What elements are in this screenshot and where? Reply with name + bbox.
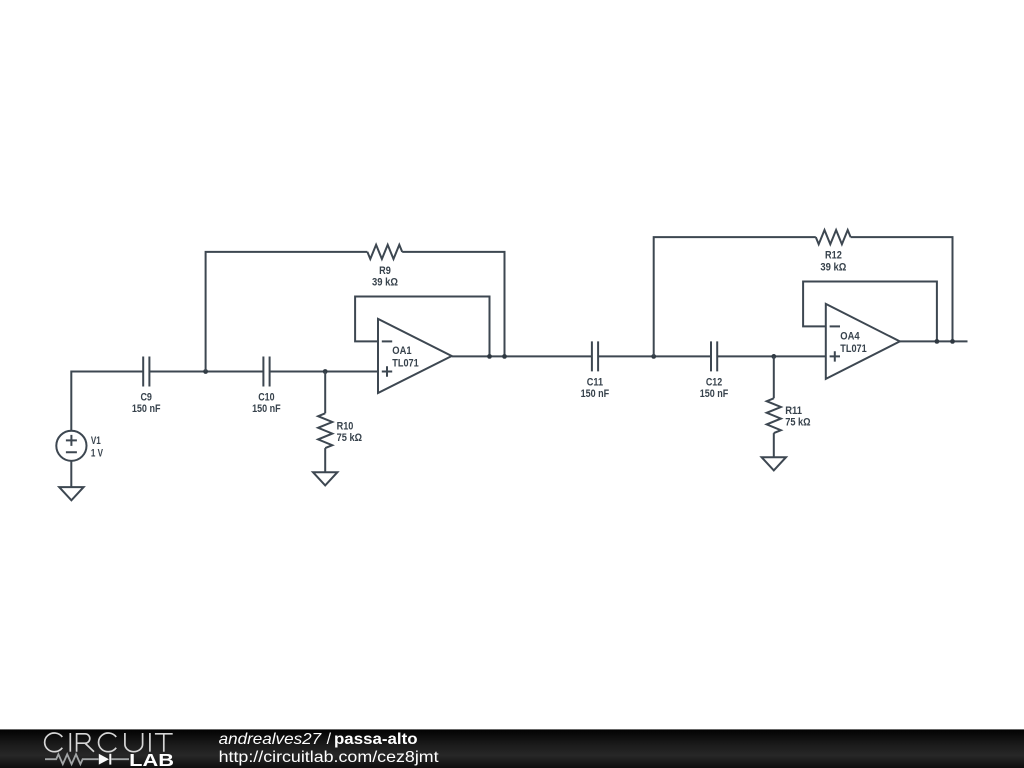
- svg-text:39 kΩ: 39 kΩ: [372, 276, 398, 288]
- voltage source V1: [56, 431, 103, 461]
- ground (below R11): [762, 457, 786, 470]
- capacitor C12: [700, 341, 729, 400]
- ground (below V1): [59, 487, 83, 500]
- svg-text:C10: C10: [258, 392, 274, 404]
- svg-text:andrealves27: andrealves27: [219, 731, 323, 748]
- wire R9 down to OA1 output: [402, 252, 504, 357]
- svg-text:OA4: OA4: [840, 330, 860, 342]
- capacitor C9: [132, 357, 161, 416]
- op-amp OA1: [378, 319, 452, 393]
- svg-text:http://circuitlab.com/cez8jmt: http://circuitlab.com/cez8jmt: [219, 749, 440, 766]
- svg-text:R11: R11: [785, 405, 802, 417]
- footer text: author / title: [219, 731, 418, 748]
- resistor R10: [318, 372, 362, 473]
- node OA1 output (R9 feedback): [502, 354, 507, 359]
- wire OA1 inner feedback loop: [355, 297, 489, 357]
- capacitor C10: [252, 357, 281, 416]
- wire C12 to OA4 noninverting input: [717, 355, 826, 357]
- capacitor C11: [581, 341, 610, 400]
- node OA1 output (inner feedback): [487, 354, 492, 359]
- svg-text:C11: C11: [587, 376, 603, 388]
- svg-text:150 nF: 150 nF: [581, 388, 610, 400]
- node D (R11 tap): [771, 354, 776, 359]
- svg-text:passa-alto: passa-alto: [334, 731, 418, 748]
- ground (below R10): [313, 472, 337, 485]
- op-amp OA4: [826, 304, 900, 379]
- resistor R9: [367, 245, 402, 289]
- wire C10 to OA1 noninverting input: [270, 371, 378, 373]
- CircuitLab logo wordmark CIRCUIT: [45, 733, 173, 752]
- resistor R11: [767, 356, 811, 457]
- wire C9 to C10: [149, 371, 263, 373]
- svg-text:75 kΩ: 75 kΩ: [337, 432, 363, 444]
- wire OA4 inner feedback loop: [803, 282, 937, 342]
- svg-text:TL071: TL071: [392, 358, 418, 370]
- wire OA4 output stub: [900, 340, 968, 342]
- wire C11 to C12: [598, 355, 711, 357]
- node OA4 output (R12 feedback): [950, 339, 955, 344]
- svg-text:OA1: OA1: [392, 345, 411, 357]
- node OA4 output (inner feedback): [935, 339, 940, 344]
- svg-text:C9: C9: [140, 392, 152, 404]
- svg-text:/: /: [327, 731, 332, 748]
- resistor R12: [816, 230, 851, 273]
- node A (C9/C10 junction): [203, 369, 208, 374]
- svg-text:1 V: 1 V: [91, 447, 104, 459]
- node B (R10 tap): [323, 369, 328, 374]
- svg-text:150 nF: 150 nF: [700, 388, 729, 400]
- svg-text:75 kΩ: 75 kΩ: [785, 417, 811, 429]
- wire OA1 output to C11: [452, 355, 592, 357]
- svg-text:150 nF: 150 nF: [252, 403, 281, 415]
- svg-text:V1: V1: [91, 435, 101, 447]
- svg-text:R10: R10: [337, 421, 354, 433]
- svg-text:R12: R12: [825, 250, 842, 262]
- svg-text:LAB: LAB: [129, 750, 174, 768]
- footer bar: [0, 729, 1024, 768]
- svg-text:39 kΩ: 39 kΩ: [820, 261, 846, 273]
- svg-text:150 nF: 150 nF: [132, 403, 161, 415]
- wire V1 to ground: [70, 461, 72, 487]
- CircuitLab logo resistor-diode glyph: [45, 754, 129, 765]
- svg-text:C12: C12: [706, 376, 722, 388]
- wire R12 down to OA4 output: [851, 237, 953, 341]
- svg-text:TL071: TL071: [840, 343, 866, 355]
- svg-text:R9: R9: [379, 265, 391, 277]
- wire node C up to R12: [654, 237, 816, 356]
- wire node A up to R9: [206, 252, 368, 372]
- wire V1 to C9: [71, 372, 143, 431]
- node C (C11/C12 junction): [651, 354, 656, 359]
